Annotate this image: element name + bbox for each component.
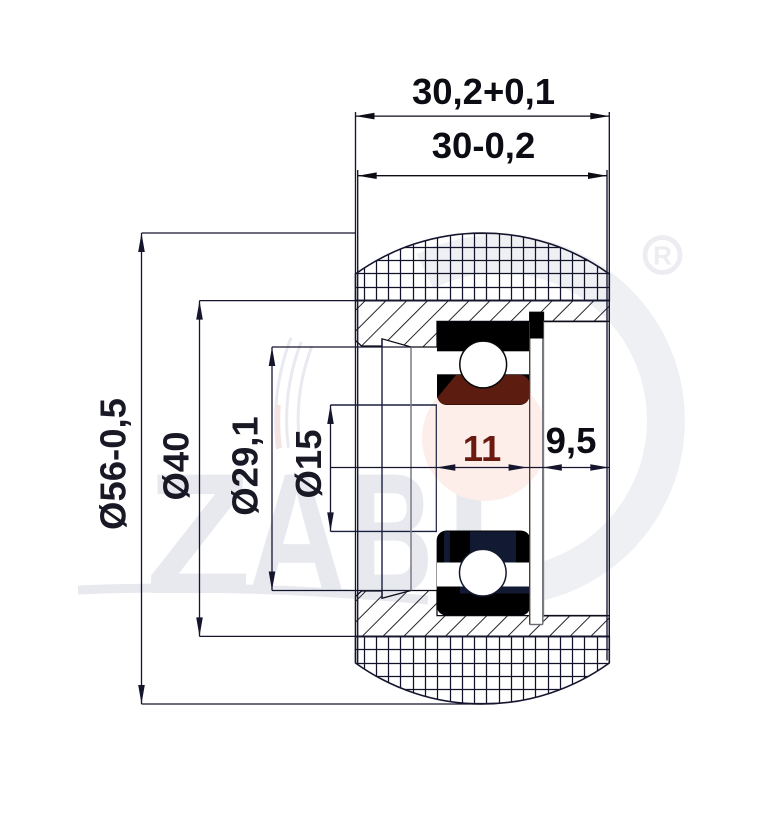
hub flange top (diagonal hatch) (356, 301, 610, 347)
circlip tab (530, 312, 544, 338)
dimension Ø56-0,5 (138, 233, 483, 704)
rubber tread top (crosshatch) (355, 228, 610, 301)
watermark registered mark (645, 238, 680, 273)
bearing ball lower (460, 549, 507, 596)
hub flange bottom (diagonal hatch) (356, 591, 610, 637)
hub bore inner lines (331, 339, 438, 599)
bearing upper section (437, 312, 544, 405)
watermark pink dot (422, 375, 548, 501)
svg-text:Ø56-0,5: Ø56-0,5 (93, 398, 134, 530)
dimension Ø15 (327, 405, 334, 531)
rubber tread bottom (crosshatch) (355, 636, 610, 709)
svg-text:Ø40: Ø40 (156, 432, 197, 501)
svg-text:11: 11 (463, 428, 502, 469)
dimension Ø40 (196, 301, 356, 637)
watermark big ring (425, 254, 666, 583)
watermark swoosh underline (78, 588, 428, 600)
svg-text:Ø29,1: Ø29,1 (225, 416, 266, 515)
hub recess (right cavity) (544, 320, 608, 322)
svg-text:9,5: 9,5 (546, 420, 597, 461)
spacer tube (530, 339, 543, 625)
svg-text:30-0,2: 30-0,2 (432, 125, 536, 166)
bearing lower section (437, 531, 531, 616)
svg-text:R: R (653, 241, 672, 271)
svg-text:Ø15: Ø15 (288, 430, 329, 499)
dimension 30-0,2 (358, 172, 607, 179)
watermark letters ZABI (146, 438, 493, 631)
svg-text:30,2+0,1: 30,2+0,1 (412, 71, 555, 112)
pink showing through spacer tube (422, 375, 548, 501)
watermark pink wave arc (278, 405, 280, 448)
wheel outline lines (356, 112, 610, 663)
bearing ball upper (460, 341, 507, 388)
watermark wave arcs (276, 338, 312, 449)
dimension 30,2+0,1 (356, 113, 610, 120)
dimension 11 and 9,5 (331, 464, 610, 471)
dimension Ø29,1 (269, 347, 411, 591)
